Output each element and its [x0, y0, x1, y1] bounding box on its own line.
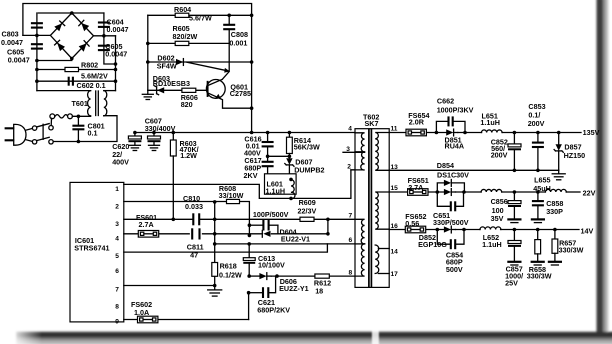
junction dots IC area [172, 197, 330, 295]
svg-text:4: 4 [115, 236, 119, 243]
svg-text:22/3V: 22/3V [298, 206, 317, 215]
resistor R802 [65, 67, 79, 71]
svg-text:2: 2 [347, 164, 351, 171]
pin 3 stub [343, 151, 365, 153]
wire: choke right top [104, 90, 116, 92]
svg-text:SK7: SK7 [365, 119, 379, 128]
D854a symbol [444, 180, 451, 187]
svg-text:400V: 400V [112, 158, 129, 167]
svg-text:5.6M/2V: 5.6M/2V [81, 71, 108, 80]
ground under C858 [532, 219, 544, 222]
wire: choke left top [37, 90, 91, 92]
svg-text:14V: 14V [581, 227, 594, 236]
svg-text:330/400V: 330/400V [145, 124, 176, 133]
wire: right AC rail [115, 36, 117, 91]
fuse FS601 [138, 231, 158, 238]
svg-text:45uH: 45uH [533, 184, 551, 193]
svg-text:EU22-V1: EU22-V1 [281, 235, 310, 244]
bridge diode top-right [79, 20, 89, 31]
junction dots B+ line [133, 131, 291, 135]
svg-text:0.56: 0.56 [405, 219, 419, 228]
capacitor C856 electrolytic [508, 192, 521, 219]
svg-text:8: 8 [349, 270, 353, 277]
ground under R657 [549, 262, 561, 265]
wire: pin5 line [124, 244, 328, 252]
svg-text:330/3W: 330/3W [559, 246, 584, 255]
resistor R618 [212, 263, 218, 277]
svg-text:0.1/2W: 0.1/2W [219, 271, 242, 280]
wire: bottom AC line to choke right bottom [53, 116, 117, 142]
inductor L601 box [265, 174, 297, 194]
wire: D602 line [148, 61, 252, 63]
wire: bridge left vertex link [23, 34, 51, 36]
svg-text:200V: 200V [491, 151, 508, 160]
inductor L655 [545, 189, 566, 192]
capacitor C620 electrolytic [128, 133, 141, 146]
T602 lower primary winding pins 7-6 [355, 219, 365, 244]
wire: pin 6 entry [355, 243, 365, 245]
C662 plates [449, 116, 453, 126]
svg-text:200V: 200V [528, 119, 545, 128]
svg-text:25V: 25V [505, 278, 518, 287]
resistor R604 [175, 13, 189, 17]
svg-text:11: 11 [391, 125, 398, 132]
bridge diode top-left [54, 21, 64, 31]
diode D606 [259, 273, 271, 280]
wire: C808 to collector vertical [222, 43, 229, 79]
svg-text:1.1uH: 1.1uH [266, 186, 286, 195]
IC U601 STRS6741 box [70, 182, 124, 322]
svg-text:6: 6 [349, 237, 353, 244]
wire: pin 2 stub [351, 169, 355, 171]
ground under C857 [508, 262, 520, 265]
resistor R658 vertical [535, 230, 541, 262]
svg-text:6: 6 [115, 268, 119, 275]
T602 primary winding pins 4-3 [355, 133, 365, 152]
inductor L652 [480, 227, 501, 230]
capacitor C616 [262, 133, 274, 157]
svg-text:14: 14 [391, 248, 399, 255]
svg-text:2: 2 [115, 204, 119, 211]
svg-text:330P: 330P [546, 207, 563, 216]
svg-text:22V: 22V [583, 188, 596, 197]
svg-text:2KV: 2KV [244, 171, 258, 180]
ground under C620 [129, 145, 140, 150]
wire: pin1 line to L601 bottom and T602 pin2 [124, 170, 362, 199]
svg-text:2.7A: 2.7A [408, 183, 423, 192]
bridge diode bottom-right [79, 41, 89, 52]
svg-text:8: 8 [115, 304, 119, 311]
wire: bridge right vertex link [94, 35, 116, 37]
wire: left vertical of startup block [147, 15, 149, 90]
capacitor C605 left [31, 44, 43, 48]
wire: D603 base line [148, 89, 207, 91]
bridge rectifier D801 diamond [50, 13, 93, 59]
svg-text:9: 9 [115, 318, 119, 325]
T602 lower primary winding pins 6-8 [355, 244, 365, 276]
capacitor C613 electrolytic [243, 244, 255, 276]
choke T601 right winding [104, 91, 107, 116]
pin 14 stub [378, 248, 389, 250]
fuse FS654 [406, 129, 426, 136]
svg-text:C662: C662 [437, 96, 454, 105]
diode D854b on line [444, 189, 456, 196]
capacitor C808 [223, 15, 235, 43]
svg-text:135V: 135V [583, 128, 600, 137]
inductor L601 coil [291, 180, 295, 199]
wire: pin13 ground line [389, 169, 559, 171]
ground at 135V return [552, 170, 565, 180]
diode D602 [176, 59, 183, 66]
wire: pin3 line to R609 and T602 pin7 [124, 218, 362, 220]
capacitor C617 [262, 156, 274, 179]
choke T601 core [96, 91, 99, 116]
svg-text:DUMPB2: DUMPB2 [294, 165, 324, 174]
wire: pin16 line to 14V [389, 229, 579, 231]
resistor R606 [182, 88, 196, 92]
diode D854a bypass above [437, 183, 464, 192]
svg-text:1.2W: 1.2W [180, 151, 197, 160]
svg-text:HZ150: HZ150 [564, 151, 586, 160]
svg-text:STRS6741: STRS6741 [74, 244, 109, 253]
capacitor C607 electrolytic [148, 133, 161, 146]
wire: left cap rail [36, 13, 38, 91]
wire: right cap rail [104, 13, 116, 64]
zener D603 [155, 86, 165, 95]
wire: fuse to choke [72, 115, 90, 117]
svg-text:33/10W: 33/10W [219, 191, 244, 200]
svg-text:820: 820 [181, 100, 193, 109]
svg-text:RU4A: RU4A [445, 142, 465, 151]
diode D604 [262, 230, 270, 237]
resistor R608 [227, 199, 240, 203]
fuse FS602 [138, 316, 158, 323]
T602 core [369, 129, 372, 287]
svg-text:0.1: 0.1 [88, 129, 98, 138]
resistor R609 [300, 217, 314, 221]
svg-text:C2785: C2785 [230, 89, 251, 98]
pin 17 stub [378, 273, 389, 275]
junction dots right side [435, 131, 561, 232]
wire: clamp connector line [268, 155, 290, 157]
T602 secondary winding pins 15-16 [375, 192, 389, 229]
bridge diode bottom-left [55, 40, 65, 51]
svg-text:0.0047: 0.0047 [8, 56, 30, 65]
resistor R603 vertical [170, 133, 176, 220]
wire: bridge bottom vertex link [37, 59, 72, 61]
wire: R604 line [148, 14, 252, 16]
svg-text:T601: T601 [72, 99, 88, 108]
svg-text:1.1uH: 1.1uH [480, 118, 500, 127]
svg-text:3: 3 [115, 221, 119, 228]
inductor on 22V line [481, 189, 502, 192]
svg-text:1000P/3KV: 1000P/3KV [437, 105, 474, 114]
svg-text:0.033: 0.033 [185, 202, 203, 211]
svg-text:DS1C30V: DS1C30V [437, 171, 469, 180]
svg-text:680P/2KV: 680P/2KV [257, 306, 290, 315]
wire: source rail vertical x215 [214, 202, 216, 286]
capacitor C621 bypass [249, 276, 276, 293]
T602 secondary winding pins 14-17 [375, 245, 379, 274]
wire: bridge box top [38, 12, 104, 14]
capacitor C810 [193, 213, 199, 225]
switch gang link [42, 124, 44, 139]
wire: pin8 line D606 R612 to T602 pin8 [249, 275, 361, 277]
wire: T602 pin6 line [215, 243, 362, 245]
wire: plug to switch [26, 128, 33, 141]
wire: emitter to rail [220, 99, 251, 109]
wire: switch to fuse [50, 118, 52, 125]
wire: B+ line to transformer pin 4 [135, 132, 362, 134]
svg-text:R618: R618 [220, 262, 237, 271]
svg-text:500V: 500V [446, 265, 463, 274]
capacitor C604 [98, 23, 110, 27]
junction dot L601 top [266, 155, 293, 182]
capacitor C801 [72, 116, 84, 141]
AC plug [5, 124, 26, 145]
choke T601 left winding [88, 91, 91, 116]
C854 plates [451, 239, 455, 249]
fuse FS651 [408, 189, 428, 196]
svg-text:EU2Z-Y1: EU2Z-Y1 [279, 284, 309, 293]
svg-text:D857: D857 [564, 143, 581, 152]
resistor R605 [175, 41, 189, 45]
svg-text:RD10ESB3: RD10ESB3 [153, 79, 190, 88]
svg-text:1: 1 [115, 186, 119, 193]
ground under R658 [532, 262, 544, 265]
capacitor C858 [532, 192, 544, 219]
wire: D602 diagonal to collector node [187, 62, 230, 72]
wire: R605 line [148, 42, 229, 44]
C621 plates [263, 287, 268, 298]
zener D857 [554, 133, 563, 171]
svg-text:100P/500V: 100P/500V [253, 210, 289, 219]
switch S601 upper pole [32, 124, 53, 131]
svg-text:10/100V: 10/100V [258, 261, 285, 270]
ground under C607 [149, 145, 160, 150]
capacitor C852 electrolytic [508, 133, 521, 171]
svg-text:330/3W: 330/3W [527, 271, 552, 280]
svg-text:0.0047: 0.0047 [1, 38, 23, 47]
C651 plates [451, 201, 455, 211]
svg-text:17: 17 [391, 271, 399, 278]
resistor R657 vertical [552, 230, 558, 262]
svg-text:5.6/7W: 5.6/7W [189, 14, 212, 23]
resistor R614 vertical [287, 133, 293, 157]
capacitor C857 electrolytic [508, 230, 521, 262]
T602 secondary winding pins 11-13 [375, 133, 389, 171]
svg-text:5: 5 [115, 253, 119, 260]
fuse FS652 [405, 226, 425, 233]
svg-text:1.0A: 1.0A [134, 308, 149, 317]
transistor Q601 [206, 79, 225, 98]
ground under R618 [208, 286, 222, 297]
inductor L651 [482, 130, 503, 133]
wire: C617/D607 bottom link [268, 178, 291, 180]
T602 primary winding pins 3-2 [355, 152, 365, 170]
capacitor C662 bypass over D851 [436, 121, 465, 132]
resistor R612 [315, 274, 329, 278]
svg-text:D854: D854 [437, 161, 454, 170]
svg-text:C602 0.1: C602 0.1 [77, 81, 106, 90]
capacitor C602 [69, 77, 73, 86]
capacitor C803 [31, 23, 43, 27]
transformer T602 box [355, 129, 389, 288]
svg-text:2.7A: 2.7A [139, 220, 154, 229]
svg-text:0.001: 0.001 [229, 39, 247, 48]
svg-text:R604: R604 [174, 5, 191, 14]
svg-text:1.1uH: 1.1uH [482, 240, 502, 249]
svg-text:35V: 35V [491, 214, 504, 223]
wire: pin9 line through FS602 [124, 293, 249, 320]
diode D852 [444, 226, 456, 233]
fuse F601 circles and squiggle [50, 114, 73, 119]
capacitor C651 bypass below [437, 192, 463, 206]
capacitor C605 right [98, 46, 110, 50]
snubber 100P/500V cap line [249, 225, 278, 234]
capacitor C811 [192, 228, 199, 239]
capacitor C853 [532, 133, 544, 171]
svg-text:15: 15 [391, 185, 399, 192]
capacitor C854 bypass below D852 [437, 230, 464, 245]
svg-text:R802: R802 [81, 61, 98, 70]
wire: pin15 line to 22V [389, 191, 580, 193]
svg-text:4: 4 [348, 125, 352, 132]
svg-text:820/2W: 820/2W [173, 32, 198, 41]
wire: R802 line [37, 69, 116, 71]
svg-text:0.0047: 0.0047 [107, 25, 129, 34]
ground under C856 [508, 219, 520, 222]
wire: C602 line [37, 80, 116, 82]
svg-text:56K/3W: 56K/3W [294, 143, 320, 152]
svg-text:0.0047: 0.0047 [105, 50, 127, 59]
switch S601 lower pole [32, 137, 53, 144]
wire: pin7 line [124, 285, 215, 287]
svg-text:3: 3 [346, 146, 350, 153]
wire: pin4 line through FS601 C811 to D604 [124, 233, 328, 235]
ground at D603 [142, 90, 153, 99]
svg-text:SF4W: SF4W [157, 61, 177, 70]
svg-text:7: 7 [349, 213, 353, 220]
wire: D604 line right vertical up to pin7 line [327, 219, 329, 234]
svg-text:7: 7 [115, 287, 119, 294]
svg-text:18: 18 [315, 286, 323, 295]
junction dots top-left block [35, 11, 117, 143]
svg-text:16: 16 [391, 223, 399, 230]
emitter arrow Q601 [215, 94, 221, 99]
wire: pin2 line [124, 202, 250, 236]
wire: outer loop from AC line over top to B+ rail [23, 4, 252, 133]
junction dots startup block [146, 14, 253, 110]
capacitor 100P/500V [263, 220, 268, 231]
zener D607 [285, 156, 294, 179]
svg-text:2.0R: 2.0R [409, 118, 425, 127]
wire: pin11 line to 135V [389, 132, 581, 134]
diode D851 [446, 129, 458, 136]
